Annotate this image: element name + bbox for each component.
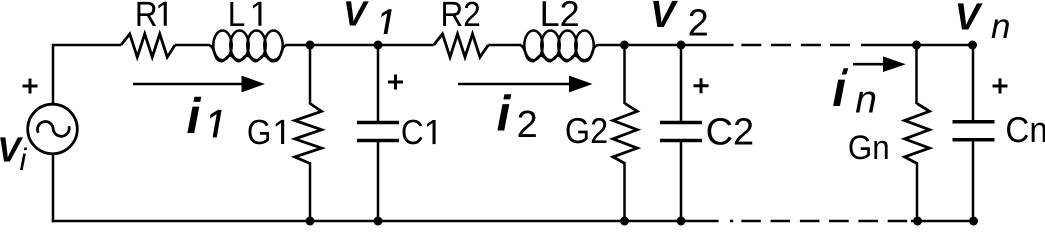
current arrow i2 [458,83,570,86]
wire: Cn branch top [972,45,975,122]
svg-text:G: G [247,113,272,152]
inductor L2 [520,31,598,62]
svg-text:n: n [991,7,1010,46]
wire: Cn branch bottom [972,140,975,221]
capacitor Cn top plate [953,120,995,124]
capacitor C2 bottom plate [660,139,702,143]
svg-text:C: C [401,113,424,152]
voltage source U1 circle [28,104,78,154]
junction dot bottom at G2 [620,217,629,226]
capacitor C2 top plate [660,121,702,125]
svg-text:Cn: Cn [1005,109,1045,150]
svg-text:V: V [343,0,369,33]
svg-text:i: i [187,88,202,144]
plus sign of source [23,79,38,94]
svg-text:L: L [228,0,246,34]
wire: left rail vertical top segment [52,45,55,105]
wire: bottom solid right span [911,220,974,223]
inductor L1 [209,31,287,62]
conductance Gn [905,104,930,164]
junction dot V1 top at C1 [374,41,383,50]
plus sign at Cn [993,79,1008,94]
junction dot bottom at G1 [306,217,315,226]
svg-text:i: i [497,86,512,142]
wire: G2 branch bottom [623,162,626,221]
svg-text:Gn: Gn [848,129,890,167]
junction dot bottom at C1 [374,217,383,226]
svg-text:C2: C2 [706,111,755,153]
current arrow in [853,63,884,66]
conductance G1 [295,104,322,164]
plus sign at C1 [388,75,403,90]
wire: C2 branch top [680,45,683,122]
junction dot Vn top at Gn [912,41,921,50]
wire: R2 to L2 [488,44,521,47]
junction dot Vn top at Cn [968,41,977,50]
wire: Gn branch top [915,45,918,104]
junction dot V1 top at G1 [306,41,315,50]
svg-text:2: 2 [517,104,538,146]
resistor R2 [434,34,489,57]
svg-text:L2: L2 [540,0,580,34]
wire: top solid span to node Vn [861,44,973,47]
wire: C1 branch bottom [377,141,380,222]
wire: bottom dash-dot span [730,220,907,223]
capacitor C1 top plate [357,121,399,125]
junction dot V2 top at G2 [620,41,629,50]
svg-text:G2: G2 [565,110,608,151]
junction dot bottom at Cn [969,217,978,226]
wire: bottom rail solid left span [52,220,719,223]
svg-text:i: i [20,142,28,177]
wire: L1 to node V1 region [286,44,434,47]
svg-text:n: n [855,79,877,122]
wire: G2 branch top [623,45,626,104]
wire: L2 to node V2 region [598,44,734,47]
wire: C2 branch bottom [680,141,683,222]
capacitor Cn bottom plate [953,138,995,142]
wire: R1 to L1 [175,44,210,47]
wire: Gn branch bottom [916,162,919,221]
capacitor C1 bottom plate [357,139,399,143]
wire: C1 branch top [377,45,380,122]
junction dot V2 top at C2 [677,41,686,50]
junction dot bottom at C2 [677,217,686,226]
wire: top dashed span [741,44,850,47]
wire: left rail vertical bottom segment [52,154,55,223]
conductance G2 [613,104,637,164]
svg-text:V: V [955,0,983,39]
resistor R1 [121,34,175,57]
svg-text:R: R [135,0,158,34]
junction dot bottom at Gn [913,217,922,226]
svg-text:V: V [650,0,678,36]
wire: G1 branch top [309,45,312,104]
svg-text:R2: R2 [441,0,481,34]
current arrow i1 [133,83,243,86]
voltage source sine symbol [38,122,70,137]
plus sign at C2 [694,78,709,93]
wire: top rail from source corner to R1 [52,44,121,47]
wire: G1 branch bottom [309,162,312,221]
svg-text:2: 2 [688,3,709,45]
